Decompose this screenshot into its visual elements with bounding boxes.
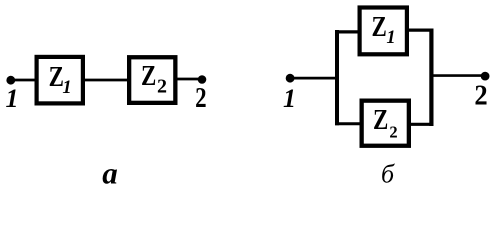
Z1 value label (series) <box>49 61 72 98</box>
wire node 1 to left junction <box>290 77 339 80</box>
svg-text:1: 1 <box>386 28 395 48</box>
Z2 value label (series) <box>141 60 167 98</box>
impedance Z2 box (parallel) <box>362 101 409 146</box>
wire node 1 to Z1 <box>11 79 36 82</box>
subfigure label б (parallel) <box>381 160 395 189</box>
impedance Z2 box (series) <box>129 57 175 103</box>
wire left junction to Z1 (top branch) <box>335 30 361 33</box>
svg-text:2: 2 <box>157 76 167 98</box>
node 1 label (series circuit) <box>6 84 19 113</box>
svg-text:Z: Z <box>373 104 388 136</box>
svg-text:б: б <box>381 160 395 189</box>
wire Z2 to right junction (bottom branch) <box>409 123 434 126</box>
svg-text:2: 2 <box>474 80 487 111</box>
svg-text:а: а <box>102 156 118 189</box>
wire left junction to Z2 (bottom branch) <box>335 122 362 125</box>
node 2 terminal dot (parallel circuit) <box>481 72 490 81</box>
Z2 value label (parallel) <box>373 104 398 142</box>
svg-text:1: 1 <box>283 84 296 113</box>
node 1 terminal dot (parallel circuit) <box>286 74 295 83</box>
subfigure label а (series) <box>102 156 118 191</box>
wire right junction to node 2 <box>431 74 485 77</box>
impedance Z1 box (series) <box>37 57 83 104</box>
node 2 terminal dot (series circuit) <box>198 75 207 84</box>
svg-text:2: 2 <box>195 82 206 114</box>
wire Z1 to Z2 <box>85 79 129 82</box>
svg-text:1: 1 <box>6 84 19 113</box>
wire Z1 to right junction (top branch) <box>407 29 434 32</box>
node 1 label (parallel circuit) <box>283 84 296 113</box>
node 1 terminal dot (series circuit) <box>6 76 15 85</box>
svg-text:Z: Z <box>141 60 156 92</box>
svg-text:Z: Z <box>372 11 387 43</box>
node 2 label (parallel circuit) <box>474 80 487 111</box>
node 2 label (series circuit) <box>195 82 206 114</box>
left junction vertical wire <box>335 30 339 125</box>
right junction vertical wire <box>429 29 433 127</box>
svg-text:1: 1 <box>62 78 71 98</box>
wire Z2 to node 2 <box>178 78 200 81</box>
svg-text:2: 2 <box>389 123 397 142</box>
impedance Z1 box (parallel) <box>360 8 407 55</box>
Z1 value label (parallel) <box>372 11 396 48</box>
